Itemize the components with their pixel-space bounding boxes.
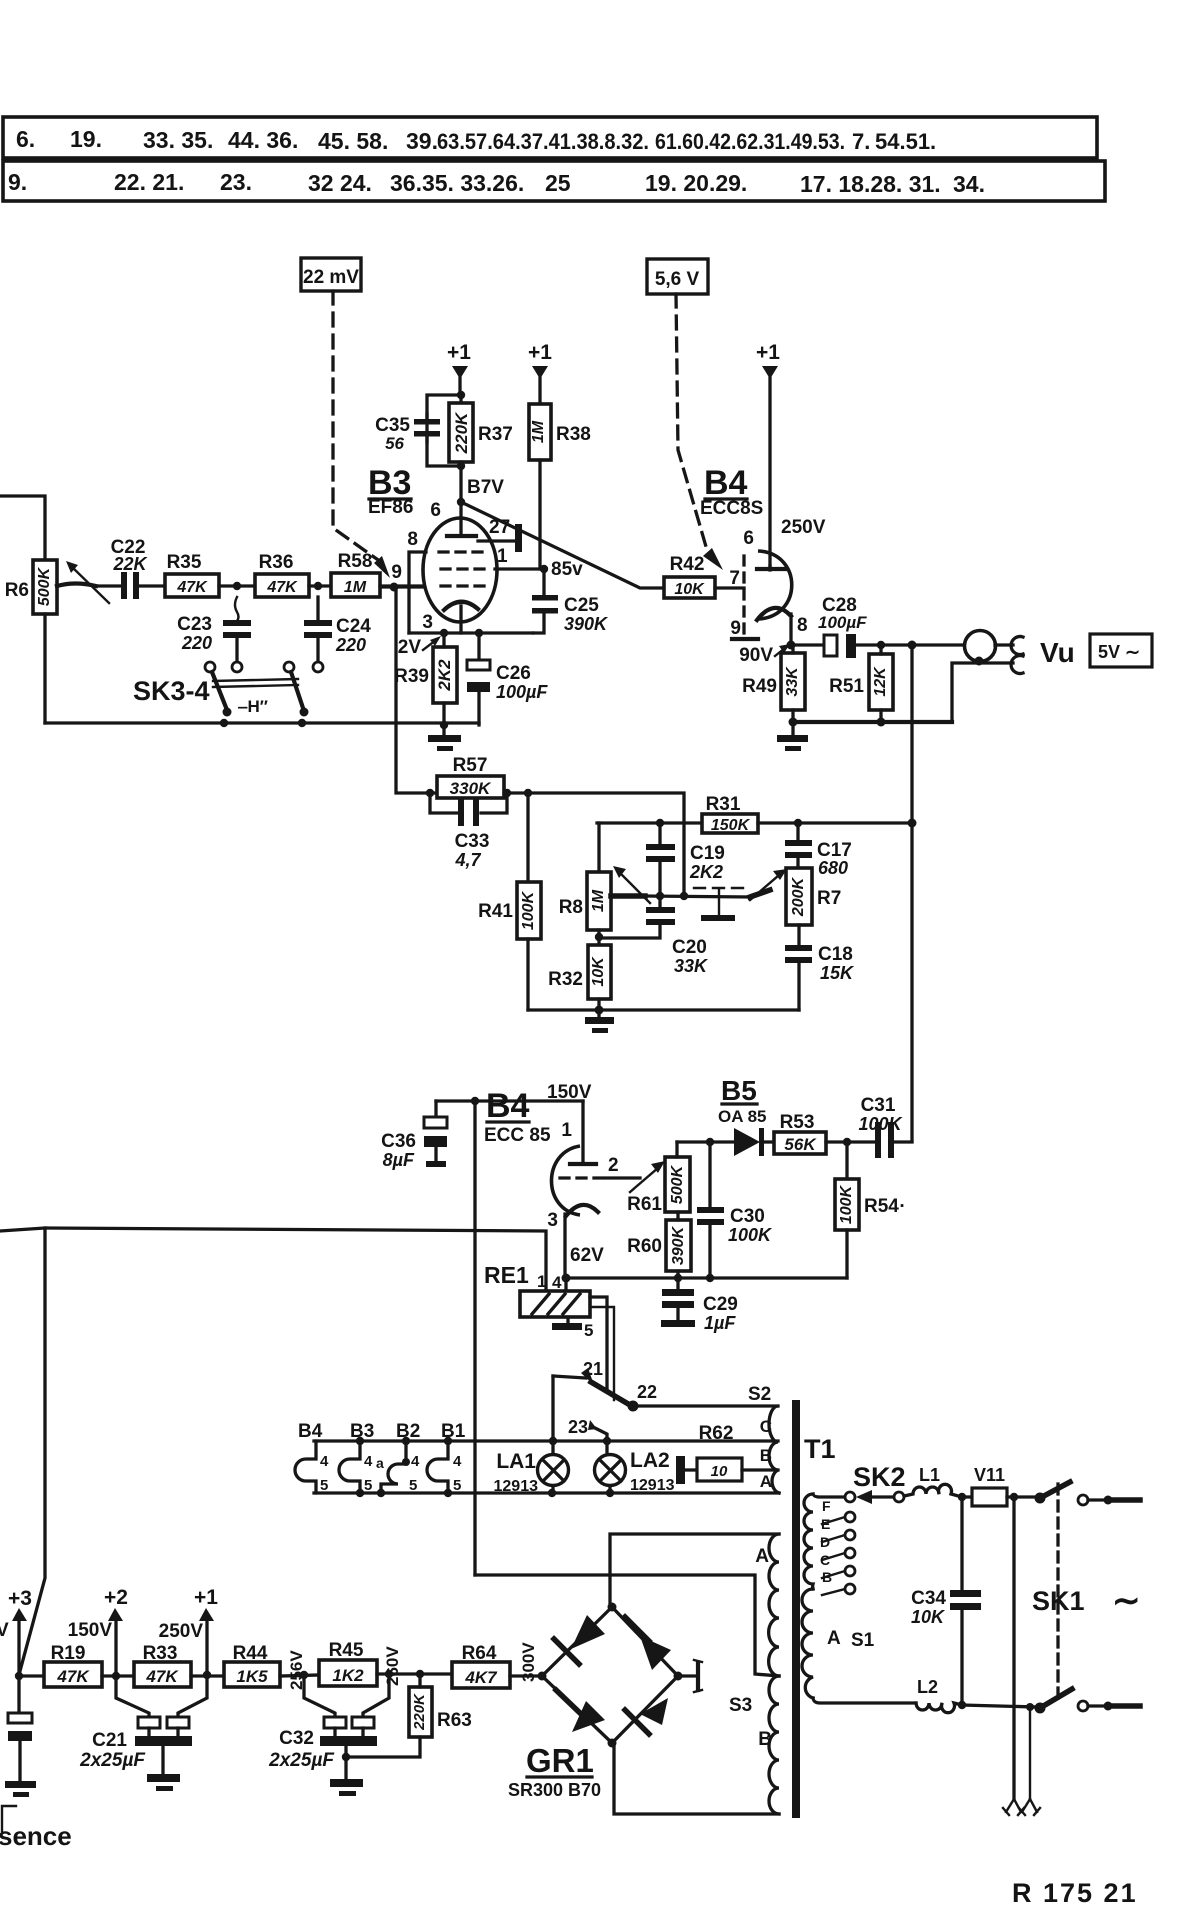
wire input top left	[0, 496, 45, 560]
svg-text:22 mV: 22 mV	[303, 267, 359, 288]
callout 5V~	[1090, 634, 1152, 667]
svg-text:SR300 B70: SR300 B70	[508, 1780, 601, 1800]
transformer T1 core	[792, 1400, 836, 1818]
wire +3 node	[15, 1672, 23, 1680]
resistor R44	[224, 1643, 319, 1687]
svg-text:OA 85: OA 85	[718, 1107, 767, 1126]
supply +1 arrow (B4 anode)	[756, 341, 780, 566]
wire ground bus SK3	[45, 719, 479, 727]
resistor R54	[835, 1142, 905, 1278]
svg-text:25: 25	[545, 170, 571, 196]
svg-text:100K: 100K	[858, 1114, 903, 1134]
tube B4b envelope	[552, 1146, 581, 1215]
svg-text:C35: C35	[375, 415, 410, 436]
svg-text:2K2: 2K2	[689, 862, 723, 882]
svg-text:100µF: 100µF	[818, 613, 867, 632]
svg-text:S2: S2	[748, 1384, 771, 1405]
supply +1 arrow	[159, 1586, 219, 1675]
svg-text:C32: C32	[279, 1728, 314, 1749]
tube B3 anode	[447, 518, 476, 536]
svg-text:A: A	[760, 1472, 772, 1491]
svg-text:56: 56	[385, 434, 404, 453]
svg-text:C30: C30	[730, 1206, 765, 1227]
contact 21	[553, 1359, 603, 1385]
svg-text:100K: 100K	[728, 1225, 773, 1245]
svg-text:47K: 47K	[266, 579, 298, 596]
svg-text:260V: 260V	[383, 1646, 402, 1686]
mains pair right	[1019, 1707, 1040, 1815]
svg-text:100µF: 100µF	[496, 682, 548, 702]
resistor R35	[165, 552, 255, 597]
svg-text:LA1: LA1	[496, 1450, 536, 1473]
svg-text:S1: S1	[851, 1630, 875, 1651]
svg-text:C25: C25	[564, 595, 599, 616]
potentiometer R61	[627, 1142, 690, 1215]
winding S3 upper	[755, 1534, 779, 1676]
resistor R64	[452, 1643, 542, 1688]
svg-text:ECC8S: ECC8S	[700, 498, 763, 519]
svg-text:C31: C31	[861, 1095, 896, 1116]
svg-text:B1: B1	[441, 1421, 466, 1442]
capacitor C36	[381, 1101, 447, 1170]
svg-text:C19: C19	[690, 843, 725, 864]
svg-text:1M: 1M	[530, 420, 547, 443]
svg-text:C33: C33	[455, 831, 490, 852]
switch SK3-4	[133, 662, 323, 717]
capacitor C23	[177, 597, 251, 662]
svg-text:R51: R51	[829, 676, 864, 697]
svg-text:5V ∼: 5V ∼	[1098, 642, 1140, 662]
tube B3 cathode	[444, 602, 478, 633]
relay RE1	[520, 1291, 590, 1317]
svg-text:B2: B2	[396, 1421, 420, 1442]
svg-text:R58: R58	[338, 551, 373, 572]
svg-text:R37: R37	[478, 424, 513, 445]
svg-text:3: 3	[547, 1210, 558, 1231]
svg-text:B3: B3	[350, 1421, 374, 1442]
diode lower-left	[556, 1690, 605, 1732]
capacitor C30	[697, 1142, 773, 1278]
svg-text:62V: 62V	[570, 1245, 604, 1266]
svg-text:D: D	[820, 1534, 830, 1550]
capacitor C34	[911, 1497, 981, 1705]
svg-text:3: 3	[422, 612, 433, 633]
svg-text:R38: R38	[556, 424, 591, 445]
svg-text:L2: L2	[917, 1677, 938, 1697]
svg-text:2x25µF: 2x25µF	[268, 1750, 335, 1771]
resistor R49	[742, 645, 805, 723]
wire gang wiper line	[645, 892, 750, 900]
svg-text:2V: 2V	[398, 637, 422, 658]
svg-text:12913: 12913	[630, 1477, 675, 1494]
tube B3 label	[368, 464, 413, 518]
svg-text:8: 8	[797, 615, 808, 636]
svg-text:22K: 22K	[112, 554, 148, 574]
tube B3 envelope	[423, 518, 497, 622]
tap terminals F E D C B	[813, 1492, 855, 1595]
label GR1	[508, 1742, 601, 1800]
terminal strip row 1	[3, 117, 1097, 158]
capacitor left edge	[5, 1676, 36, 1797]
node 87V	[457, 462, 504, 518]
svg-text:sence: sence	[0, 1821, 72, 1851]
tube B4b anode	[561, 1101, 596, 1164]
winding S2	[760, 1406, 779, 1493]
tube B4b label	[484, 1087, 551, 1146]
svg-text:SK2: SK2	[853, 1462, 906, 1492]
svg-text:10K: 10K	[674, 581, 705, 598]
svg-text:15K: 15K	[820, 963, 855, 983]
svg-text:23.: 23.	[220, 169, 252, 195]
svg-text:7.: 7.	[852, 129, 870, 154]
svg-text:R35: R35	[167, 552, 202, 573]
svg-text:S3: S3	[729, 1695, 752, 1716]
wire long line to RE1 pin1	[0, 1228, 45, 1671]
svg-text:1K5: 1K5	[236, 1667, 268, 1686]
svg-text:4: 4	[320, 1453, 329, 1470]
svg-text:R41: R41	[478, 901, 513, 922]
wire dashed 5,6V to pin 7	[676, 294, 723, 570]
resistor R38	[529, 404, 591, 569]
resistor R53	[774, 1112, 876, 1154]
resistor R36	[255, 552, 331, 597]
main supply rail	[19, 1674, 44, 1677]
supply +1 arrow (R38)	[528, 341, 552, 404]
svg-text:5,6 V: 5,6 V	[655, 269, 700, 290]
callout 22mV	[301, 258, 361, 291]
svg-text:F: F	[822, 1498, 831, 1514]
switch SK1 upper	[1035, 1482, 1141, 1505]
tube B4b grid	[560, 1155, 619, 1178]
svg-text:A: A	[827, 1628, 841, 1649]
svg-text:5: 5	[453, 1477, 461, 1494]
svg-text:+1: +1	[756, 341, 780, 364]
svg-text:B4: B4	[704, 464, 748, 502]
svg-text:A: A	[755, 1546, 769, 1567]
svg-text:C20: C20	[672, 937, 707, 958]
label sence fragment	[0, 1806, 72, 1851]
svg-text:E: E	[821, 1516, 830, 1532]
relay ground pin 5	[552, 1317, 593, 1340]
capacitor C20	[599, 896, 709, 976]
svg-text:R8: R8	[559, 897, 583, 918]
wire node9 to R57	[396, 587, 437, 793]
diode upper-right	[625, 1617, 671, 1670]
svg-text:C36: C36	[381, 1131, 416, 1152]
svg-text:4: 4	[552, 1273, 562, 1292]
ground bus output stage	[789, 718, 953, 727]
svg-text:33. 35.: 33. 35.	[143, 127, 213, 153]
svg-text:19. 20.29.: 19. 20.29.	[645, 170, 747, 196]
svg-text:T1: T1	[804, 1434, 836, 1464]
svg-text:220: 220	[335, 635, 366, 655]
resistor R31	[597, 794, 912, 834]
R7 wiper arrow	[750, 869, 787, 900]
svg-text:10: 10	[711, 1463, 728, 1480]
svg-text:4: 4	[411, 1453, 420, 1470]
svg-text:+3: +3	[8, 1587, 32, 1610]
diode B5 label	[718, 1075, 767, 1126]
svg-text:R53: R53	[780, 1112, 815, 1133]
contact 23	[568, 1417, 607, 1455]
svg-text:V11: V11	[974, 1465, 1005, 1485]
wire S3 top to bridge	[610, 1534, 779, 1607]
svg-text:1: 1	[561, 1120, 572, 1141]
wire Vu lower return	[952, 663, 1013, 722]
svg-text:EF86: EF86	[368, 497, 413, 518]
wire L2 to SK1 lower	[958, 1701, 1036, 1711]
resistor R39	[394, 633, 457, 725]
capacitor C17	[785, 819, 852, 878]
selector SK2	[853, 1462, 906, 1504]
resistor R33	[134, 1643, 224, 1687]
resistor R41	[478, 793, 541, 1010]
terminal strip row 2	[3, 161, 1105, 201]
heater B1	[427, 1421, 466, 1494]
resistor R45	[319, 1640, 452, 1686]
capacitor C29	[661, 1278, 738, 1333]
svg-text:8µF: 8µF	[383, 1150, 415, 1170]
svg-text:47K: 47K	[145, 1667, 179, 1686]
wire grid to R61 wiper	[606, 1161, 665, 1192]
svg-text:6.: 6.	[16, 126, 35, 152]
svg-text:4: 4	[364, 1453, 373, 1470]
primary bottom to L2 line	[813, 1698, 916, 1703]
svg-text:22: 22	[637, 1382, 657, 1402]
svg-text:B4: B4	[298, 1421, 323, 1442]
svg-text:63.57.64.37.41.38.8.32.: 63.57.64.37.41.38.8.32.	[437, 129, 649, 154]
svg-text:ECC 85: ECC 85	[484, 1125, 551, 1146]
svg-text:200K: 200K	[790, 876, 807, 917]
svg-text:R63: R63	[437, 1710, 472, 1731]
svg-text:54.51.: 54.51.	[875, 129, 936, 154]
potentiometer R6	[5, 560, 57, 723]
node 90V	[739, 641, 795, 667]
svg-text:R44: R44	[233, 1643, 268, 1664]
svg-text:R60: R60	[627, 1236, 662, 1257]
diode lower-right	[625, 1698, 668, 1734]
svg-text:R57: R57	[453, 755, 488, 776]
svg-text:LA2: LA2	[630, 1449, 670, 1472]
svg-text:220: 220	[181, 633, 212, 653]
resistor R57	[437, 755, 528, 798]
meter lamp circle	[965, 631, 996, 666]
heater B3	[339, 1421, 374, 1494]
svg-text:220K: 220K	[411, 1693, 428, 1731]
svg-text:36.35. 33.26.: 36.35. 33.26.	[390, 170, 524, 196]
svg-text:85v: 85v	[551, 559, 583, 580]
svg-text:34.: 34.	[953, 171, 985, 197]
heater B2	[376, 1421, 420, 1494]
svg-text:90V: 90V	[739, 645, 773, 666]
svg-text:5: 5	[409, 1477, 417, 1494]
wire cathode bus	[409, 629, 533, 637]
svg-text:C18: C18	[818, 944, 853, 965]
svg-text:23: 23	[568, 1417, 588, 1437]
svg-text:9: 9	[730, 618, 741, 639]
wire C36 node down	[473, 1101, 476, 1575]
svg-text:9: 9	[391, 562, 402, 583]
svg-text:R33: R33	[143, 1643, 178, 1664]
svg-text:C26: C26	[496, 663, 531, 684]
tube B4a grid	[729, 556, 744, 634]
svg-text:9.: 9.	[8, 169, 27, 195]
R6 wiper arrow	[57, 561, 109, 603]
pin 9 node	[380, 562, 424, 592]
svg-text:2x25µF: 2x25µF	[79, 1750, 146, 1771]
svg-text:44. 36.: 44. 36.	[228, 127, 298, 153]
svg-text:R31: R31	[706, 794, 741, 815]
resistor R37	[449, 403, 513, 462]
switch SK1 link	[1056, 1484, 1059, 1700]
primary S1 tap section	[804, 1494, 813, 1589]
svg-text:B: B	[760, 1446, 772, 1465]
tube B4a cathode	[757, 608, 808, 645]
svg-text:C34: C34	[911, 1588, 946, 1609]
lamp LA2	[595, 1449, 675, 1494]
svg-text:∼: ∼	[1112, 1582, 1141, 1620]
svg-text:2K2: 2K2	[435, 659, 454, 692]
wire dashed 22mV to grid node 9	[333, 291, 390, 578]
svg-text:300V: 300V	[519, 1642, 538, 1682]
svg-text:10K: 10K	[911, 1607, 946, 1627]
svg-text:5: 5	[364, 1477, 372, 1494]
svg-text:250V: 250V	[781, 517, 826, 538]
wire tone bottom bus	[528, 1006, 799, 1015]
switch SK1 lower	[1035, 1689, 1141, 1714]
svg-text:220K: 220K	[452, 411, 471, 454]
supply +2 arrow	[68, 1586, 128, 1676]
svg-text:1: 1	[497, 546, 508, 567]
svg-text:+1: +1	[528, 341, 552, 364]
svg-text:R42: R42	[670, 554, 705, 575]
capacitor C32	[268, 1674, 389, 1796]
resistor R62	[676, 1423, 778, 1484]
wire pin4	[564, 1278, 567, 1291]
svg-text:500K: 500K	[36, 566, 53, 606]
svg-text:C: C	[760, 1417, 772, 1436]
resistor R32	[548, 945, 611, 1010]
tube B4 label	[700, 464, 763, 519]
svg-text:680: 680	[818, 858, 848, 878]
svg-text:8: 8	[407, 529, 418, 550]
svg-text:1µF: 1µF	[704, 1313, 736, 1333]
svg-text:C29: C29	[703, 1294, 738, 1315]
capacitor C18	[785, 944, 855, 1010]
svg-text:4,7: 4,7	[454, 850, 481, 870]
svg-text:56K: 56K	[784, 1135, 817, 1154]
diode B5	[677, 1128, 774, 1156]
svg-text:‒H″: ‒H″	[237, 697, 268, 716]
wire detector bottom bus	[562, 1274, 848, 1283]
svg-text:R64: R64	[462, 1643, 497, 1664]
svg-text:33K: 33K	[784, 666, 801, 697]
svg-text:R19: R19	[51, 1643, 86, 1664]
R8 wiper arrow	[611, 866, 650, 903]
capacitor C22	[96, 537, 165, 599]
tube B4a anode	[743, 528, 785, 570]
svg-text:C24: C24	[336, 616, 371, 637]
svg-text:32 24.: 32 24.	[308, 170, 372, 196]
ground at R49	[777, 722, 808, 751]
wire +1 branch node	[427, 391, 465, 466]
pin 8 wire	[407, 529, 426, 633]
svg-text:B7V: B7V	[467, 477, 504, 498]
svg-text:330K: 330K	[450, 779, 492, 798]
heater B4	[295, 1421, 329, 1494]
inductor L2	[916, 1677, 962, 1713]
wire RE1 to switch	[590, 1297, 614, 1400]
gang link dashes + screen	[694, 888, 748, 921]
inductor L1	[904, 1465, 962, 1497]
capacitor C28	[791, 595, 965, 658]
svg-text:17. 18.28. 31.: 17. 18.28. 31.	[800, 171, 941, 197]
svg-text:R 175 21: R 175 21	[1012, 1878, 1138, 1908]
capacitor C35	[375, 414, 440, 453]
resistor R63	[346, 1674, 472, 1757]
svg-text:6: 6	[743, 528, 754, 549]
svg-text:61.60.42.62.31.49.53.: 61.60.42.62.31.49.53.	[655, 129, 845, 154]
svg-text:100K: 100K	[520, 890, 537, 930]
capacitor C19	[646, 819, 725, 896]
svg-text:47K: 47K	[56, 1667, 90, 1686]
svg-text:R32: R32	[548, 969, 583, 990]
connector hooks Vu	[995, 637, 1023, 674]
capacitor C24	[304, 597, 371, 662]
svg-text:R36: R36	[259, 552, 294, 573]
svg-text:R6: R6	[5, 580, 29, 601]
svg-text:GR1: GR1	[526, 1742, 594, 1779]
winding S3 lower	[729, 1676, 779, 1814]
svg-text:R54·: R54·	[864, 1196, 905, 1217]
wire long vertical output rail	[908, 645, 917, 1141]
capacitor C33	[426, 789, 511, 870]
svg-text:B: B	[758, 1729, 772, 1750]
svg-text:10K: 10K	[590, 956, 607, 987]
svg-text:39.: 39.	[406, 128, 438, 154]
svg-text:12913: 12913	[494, 1478, 539, 1495]
callout 5,6V	[647, 259, 708, 294]
resistor R51	[829, 641, 893, 722]
lamp LA1	[494, 1376, 569, 1495]
primary S1 A section	[802, 1589, 875, 1698]
resistor R60	[627, 1212, 691, 1278]
bridge + output mark	[678, 1660, 702, 1692]
svg-text:R7: R7	[817, 888, 841, 909]
pin 9 shield bar	[730, 618, 758, 639]
supply +3 arrow	[8, 1587, 32, 1676]
svg-text:V: V	[0, 1620, 9, 1641]
svg-text:+1: +1	[447, 341, 471, 364]
potentiometer R8	[559, 823, 611, 945]
resistor R42	[461, 502, 744, 598]
svg-text:100K: 100K	[838, 1184, 855, 1224]
svg-text:R45: R45	[329, 1640, 364, 1661]
svg-text:250V: 250V	[159, 1621, 204, 1642]
pin labels 1 4	[537, 1272, 562, 1292]
grid-2 capacitor 27	[478, 517, 522, 552]
svg-text:5: 5	[584, 1321, 593, 1340]
svg-text:SK1: SK1	[1032, 1586, 1085, 1616]
svg-text:19.: 19.	[70, 126, 102, 152]
svg-text:1M: 1M	[590, 889, 607, 912]
svg-text:7: 7	[729, 568, 740, 589]
svg-text:C23: C23	[177, 614, 212, 635]
potentiometer R7	[786, 868, 841, 946]
svg-text:C21: C21	[92, 1730, 127, 1751]
svg-text:12K: 12K	[872, 666, 889, 697]
switch arm 22	[591, 1382, 777, 1412]
